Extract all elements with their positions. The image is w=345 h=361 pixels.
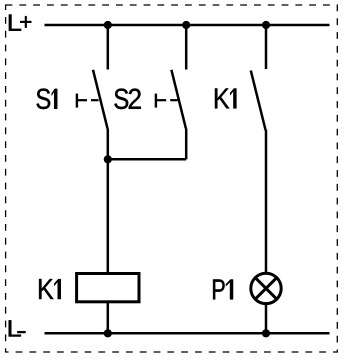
label K1 (contact) — [215, 88, 236, 108]
junction dot on L- at coil branch — [104, 329, 112, 337]
pushbutton S2 (NO contact blade) — [171, 70, 186, 129]
relay contact K1 (NO blade) — [251, 71, 266, 131]
wire S2 bottom down to parallel link — [185, 129, 188, 160]
pushbutton S2 actuator — [156, 94, 178, 108]
label P1 — [213, 279, 233, 299]
wire coil K1 to L- — [107, 302, 110, 334]
label S1 — [37, 89, 58, 110]
net label L- — [9, 320, 26, 336]
junction dot on L+ at S2 branch — [182, 21, 190, 29]
junction dot on L+ at S1 branch — [104, 21, 112, 29]
label S2 — [114, 89, 140, 110]
wire S1 bottom to junction node A — [107, 129, 110, 160]
pushbutton S1 actuator — [77, 94, 99, 108]
wire L+ to S1 top terminal — [107, 25, 110, 70]
lamp P1 — [251, 273, 281, 303]
wire L+ to K1 contact top terminal — [265, 25, 268, 69]
wire K1 contact bottom to lamp P1 — [265, 130, 268, 274]
wire L+ to S2 top terminal — [185, 25, 188, 70]
net L- rail — [45, 332, 330, 335]
junction dot on L- at lamp branch — [262, 329, 270, 337]
net L+ rail — [45, 24, 330, 27]
wire node A down to coil K1 — [107, 159, 110, 273]
junction node A dot — [104, 155, 112, 163]
junction dot on L+ at K1 branch — [262, 21, 270, 29]
pushbutton S1 (NO contact blade) — [93, 70, 108, 129]
wire parallel link S2 to node A — [108, 158, 186, 161]
label K1 (coil) — [39, 279, 61, 299]
relay coil K1 — [77, 274, 139, 302]
wire lamp P1 to L- — [265, 303, 268, 334]
net label L+ — [9, 15, 31, 31]
